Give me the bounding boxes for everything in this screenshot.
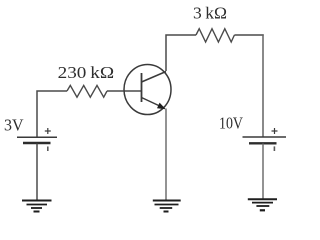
battery V1 plus sign <box>45 128 51 134</box>
wire V1 negative to ground <box>36 144 38 201</box>
transistor Q1 circle <box>124 65 171 115</box>
transistor Q1 collector stroke <box>142 72 167 83</box>
wire base: battery V1 top to resistor R1 <box>37 91 67 137</box>
ground right <box>248 199 277 210</box>
label 3V for V1 <box>4 116 24 135</box>
label 3kOhm for R2 <box>193 4 227 23</box>
transistor Q1 base bar <box>141 73 143 102</box>
battery V2 positive plate <box>243 136 287 138</box>
svg-text:10V: 10V <box>219 113 244 132</box>
ground left <box>22 201 52 212</box>
label 230kOhm for R1 <box>58 63 115 82</box>
wire base into transistor <box>107 90 142 92</box>
battery V2 minus tick <box>273 146 275 151</box>
wire right branch down to battery V2 <box>262 34 264 137</box>
label 10V for V2 <box>219 113 244 132</box>
battery V2 negative plate <box>249 142 277 144</box>
battery V2 plus sign <box>272 128 278 134</box>
wire emitter down to ground <box>165 109 167 201</box>
resistor R1 230kOhm zigzag <box>67 85 107 97</box>
battery V1 minus tick <box>47 147 49 152</box>
svg-text:3V: 3V <box>4 116 24 135</box>
ground middle <box>153 201 181 212</box>
svg-text:3 kΩ: 3 kΩ <box>193 4 227 23</box>
battery V1 negative plate <box>23 142 51 144</box>
wire V2 negative to ground <box>262 144 264 200</box>
wire top rail right segment <box>234 34 263 36</box>
transistor Q1 emitter stroke with arrow <box>142 98 166 110</box>
resistor R2 3kOhm zigzag <box>196 29 234 42</box>
wire top-left: collector riser to top rail <box>166 35 196 71</box>
svg-text:230 kΩ: 230 kΩ <box>58 63 115 82</box>
battery V1 positive plate <box>17 136 57 138</box>
